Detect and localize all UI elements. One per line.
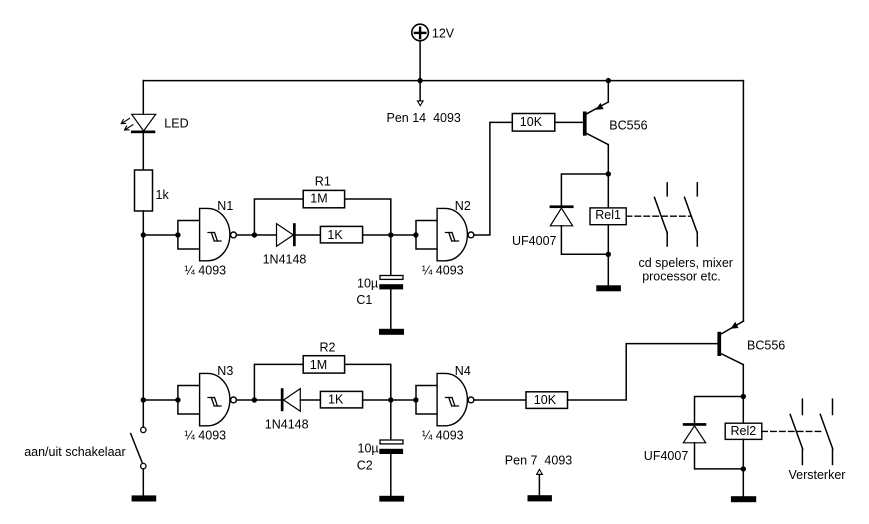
op-amp gate N4 (NAND 4093) xyxy=(422,364,474,443)
relay contacts K1 xyxy=(639,183,733,284)
wire node to N2 input xyxy=(391,234,416,236)
svg-text:cd spelers, mixer: cd spelers, mixer xyxy=(639,256,733,270)
svg-text:C1: C1 xyxy=(356,293,372,307)
wire 1K to node C1 xyxy=(363,234,391,236)
wire N4 output to 10K xyxy=(474,399,526,401)
wire N3 out to D3 xyxy=(254,399,280,401)
wire R1 feedback loop xyxy=(254,199,390,235)
pin label Pen 7 4093 arrow xyxy=(505,454,572,496)
wire row1 to N1 input xyxy=(143,234,178,236)
node left rail row2 xyxy=(141,397,146,402)
capacitor C2 10u xyxy=(357,400,403,496)
node Rel1 bottom xyxy=(606,252,611,257)
svg-text:UF4007: UF4007 xyxy=(512,234,557,248)
wire D3 to 1K xyxy=(300,399,320,401)
resistor R2 1M xyxy=(303,340,344,373)
gate N1 input tie xyxy=(178,221,200,250)
relay coil Rel1 xyxy=(590,174,626,285)
svg-text:BC556: BC556 xyxy=(747,339,785,353)
svg-text:Versterker: Versterker xyxy=(789,468,846,482)
svg-text:¼ 4093: ¼ 4093 xyxy=(184,428,226,442)
node N3 output xyxy=(252,397,257,402)
svg-text:R1: R1 xyxy=(315,175,331,189)
ground under Rel1 xyxy=(596,285,621,291)
pin label Pen 14 4093 arrow xyxy=(387,81,461,125)
relay contacts K2 xyxy=(789,399,846,482)
node left rail row1 xyxy=(141,232,146,237)
wire row2 to N3 input xyxy=(143,399,178,401)
svg-text:BC556: BC556 xyxy=(609,119,647,133)
svg-text:1M: 1M xyxy=(310,358,327,372)
ground under C2 xyxy=(379,496,404,502)
ground under switch xyxy=(132,495,157,501)
svg-text:Pen 7 4093: Pen 7 4093 xyxy=(505,454,572,468)
node Q1 emitter bus xyxy=(606,78,611,83)
node N4 input xyxy=(413,397,418,402)
svg-text:N4: N4 xyxy=(455,364,471,378)
wire left rail xyxy=(142,211,144,427)
svg-text:1K: 1K xyxy=(328,393,344,407)
wire top +12V bus xyxy=(143,80,743,82)
svg-text:10K: 10K xyxy=(534,393,557,407)
wire D2 to 1K xyxy=(296,234,321,236)
svg-text:Pen 14 4093: Pen 14 4093 xyxy=(387,111,461,125)
wire N1 out to D2 xyxy=(254,234,276,236)
resistor 1K row1 xyxy=(320,226,362,243)
svg-text:UF4007: UF4007 xyxy=(644,449,689,463)
resistor 10K row1 xyxy=(512,114,555,132)
resistor 1K row2 xyxy=(320,391,362,408)
power source +12V xyxy=(412,24,455,41)
svg-text:C2: C2 xyxy=(357,459,373,473)
diode 1N4148 row1 xyxy=(263,223,307,266)
diode 1N4148 row2 xyxy=(265,388,309,431)
svg-text:¼ 4093: ¼ 4093 xyxy=(422,428,464,442)
resistor R1 1M xyxy=(303,175,344,208)
wire LED to R 1k xyxy=(142,133,144,170)
svg-text:1N4148: 1N4148 xyxy=(263,252,307,266)
resistor 10K row2 xyxy=(526,392,568,409)
capacitor C1 10u xyxy=(356,235,403,329)
wire N3 output xyxy=(236,399,254,401)
wire dashed Rel2 to contacts xyxy=(762,430,823,432)
ground under C1 xyxy=(379,329,404,335)
svg-text:1K: 1K xyxy=(327,228,343,242)
svg-text:1k: 1k xyxy=(156,188,170,202)
node N2 input xyxy=(413,232,418,237)
node N3 input xyxy=(175,397,180,402)
resistor 1k xyxy=(135,170,170,211)
svg-text:1N4148: 1N4148 xyxy=(265,417,309,431)
svg-text:Rel1: Rel1 xyxy=(595,208,621,222)
node Rel2 bottom xyxy=(741,466,746,471)
LED D1 xyxy=(121,114,188,133)
transistor Q1 BC556 xyxy=(583,81,648,174)
svg-text:¼ 4093: ¼ 4093 xyxy=(184,263,226,277)
op-amp gate N2 (NAND 4093) xyxy=(422,199,474,278)
node N1 input xyxy=(175,232,180,237)
wire R2 feedback loop xyxy=(254,364,390,400)
switch aan/uit schakelaar xyxy=(24,427,146,495)
svg-text:1M: 1M xyxy=(310,192,327,206)
svg-text:10µ: 10µ xyxy=(358,441,379,455)
node Q2 collector xyxy=(741,394,746,399)
wire 12V to bus xyxy=(419,41,421,81)
svg-text:aan/uit schakelaar: aan/uit schakelaar xyxy=(24,445,125,459)
node C1 top xyxy=(388,232,393,237)
wire bus to LED xyxy=(142,81,144,115)
op-amp gate N1 (NAND 4093) xyxy=(184,199,236,278)
ground under Rel2 xyxy=(731,496,756,502)
wire N2 output up to 10K xyxy=(474,122,512,235)
svg-text:12V: 12V xyxy=(432,26,455,40)
diode UF4007 row1 xyxy=(512,174,608,254)
wire node to N4 input xyxy=(391,399,416,401)
relay coil Rel2 xyxy=(725,397,762,497)
wire N1 output xyxy=(236,234,254,236)
diode UF4007 row2 xyxy=(644,397,744,469)
svg-text:10µ: 10µ xyxy=(357,276,378,290)
svg-text:R2: R2 xyxy=(320,340,336,354)
wire right bus down to Q2 emitter xyxy=(742,81,744,322)
svg-text:N1: N1 xyxy=(217,199,233,213)
svg-text:N3: N3 xyxy=(217,364,233,378)
wire 10K to Q1 base xyxy=(555,121,583,123)
node Q1 collector xyxy=(606,171,611,176)
wire 10K to Q2 base xyxy=(568,344,718,400)
svg-text:Rel2: Rel2 xyxy=(731,424,757,438)
op-amp gate N3 (NAND 4093) xyxy=(184,364,236,443)
node N1 output xyxy=(252,232,257,237)
wire 1K to node C2 xyxy=(363,399,391,401)
transistor Q2 BC556 xyxy=(717,321,785,396)
svg-text:N2: N2 xyxy=(455,199,471,213)
svg-text:LED: LED xyxy=(164,117,188,131)
svg-text:10K: 10K xyxy=(520,115,543,129)
node 12V junction xyxy=(417,78,422,83)
wire dashed Rel1 to contacts xyxy=(626,215,690,217)
gate N3 input tie xyxy=(178,386,200,415)
gate N4 input tie xyxy=(416,386,437,415)
ground under Pen 7 xyxy=(528,495,552,501)
gate N2 input tie xyxy=(416,221,437,250)
svg-text:¼ 4093: ¼ 4093 xyxy=(422,263,464,277)
node C2 top xyxy=(388,397,393,402)
svg-text:processor etc.: processor etc. xyxy=(642,270,721,284)
